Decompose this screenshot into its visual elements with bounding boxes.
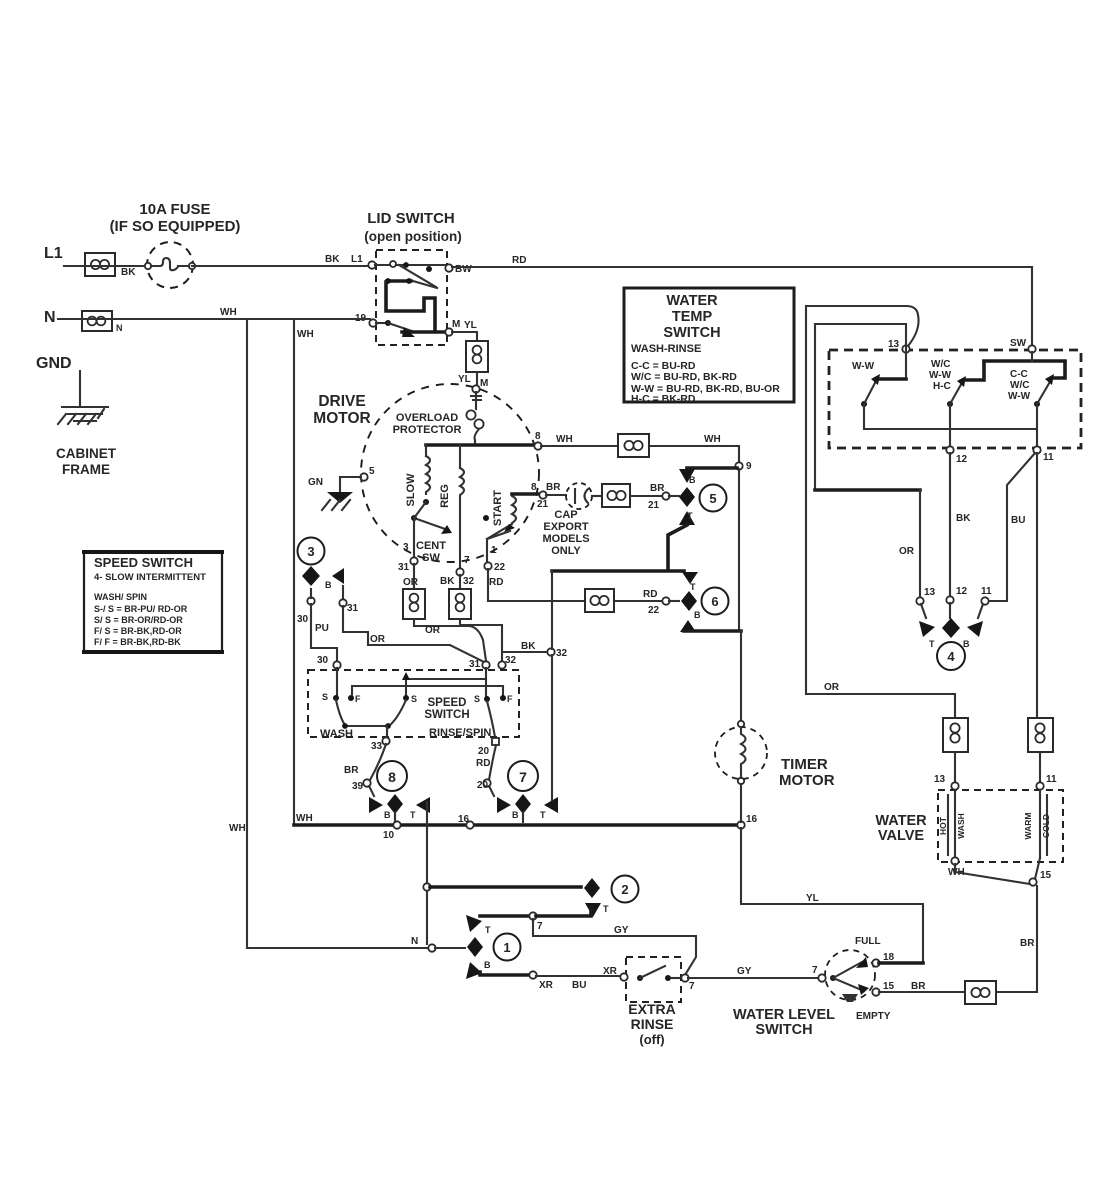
drive motor body (dashed circle) — [361, 384, 539, 562]
svg-text:BK: BK — [121, 267, 136, 278]
svg-text:BK: BK — [440, 576, 455, 587]
node 9 — [735, 461, 752, 472]
svg-text:(off): (off) — [639, 1032, 664, 1047]
node 13b — [916, 587, 935, 605]
node N — [428, 944, 465, 951]
svg-text:8: 8 — [531, 482, 537, 493]
svg-text:W-W: W-W — [1008, 391, 1031, 402]
svg-text:H-C = BK-RD: H-C = BK-RD — [631, 393, 696, 405]
svg-text:11: 11 — [1043, 452, 1054, 463]
wire T of 8 down to diamond 1 area — [426, 802, 428, 944]
start switch arm — [487, 524, 515, 563]
svg-text:16: 16 — [746, 814, 758, 825]
svg-text:T: T — [603, 904, 609, 914]
svg-text:VALVE: VALVE — [878, 828, 925, 844]
wire (bold) node to flag 2 — [430, 885, 581, 889]
lid switch S2 (dashed enclosure) — [376, 250, 447, 345]
node 16 on bus — [458, 814, 474, 829]
svg-text:N: N — [411, 936, 418, 947]
node 33 — [371, 737, 390, 752]
svg-text:PU: PU — [315, 623, 329, 634]
contact flag 2 — [584, 878, 609, 917]
node 12b — [946, 586, 967, 604]
node 31 (motor) — [398, 557, 419, 588]
wire contact6 B to right drop (bold) — [684, 629, 741, 633]
svg-text:GY: GY — [614, 925, 629, 936]
svg-text:32: 32 — [556, 648, 568, 659]
slow winding — [405, 445, 430, 507]
svg-text:T: T — [929, 639, 935, 649]
svg-text:BU: BU — [1011, 515, 1025, 526]
svg-text:7: 7 — [537, 921, 543, 932]
svg-text:(open position): (open position) — [364, 229, 461, 244]
svg-text:WASH-RINSE: WASH-RINSE — [631, 343, 701, 355]
svg-text:15: 15 — [883, 981, 895, 992]
node 13 (top edge) — [888, 339, 910, 353]
speed switch rinse arm — [487, 701, 495, 737]
wire BK branch to vertical 552 — [502, 641, 568, 659]
svg-text:GN: GN — [308, 477, 323, 488]
svg-text:31: 31 — [469, 659, 481, 670]
label L1 — [44, 245, 63, 262]
wire WH bottom bus — [294, 813, 741, 825]
svg-text:B: B — [384, 810, 391, 820]
wire BK 12 down — [950, 453, 971, 597]
svg-text:WATER: WATER — [666, 293, 718, 309]
svg-text:LID SWITCH: LID SWITCH — [367, 210, 455, 227]
svg-text:L1: L1 — [44, 245, 63, 262]
motor bus (bold) — [426, 443, 536, 447]
svg-text:FULL: FULL — [855, 936, 881, 947]
circle terminal 3 — [298, 538, 325, 565]
speed switch contacts S3 F3 — [474, 694, 513, 704]
svg-text:OR: OR — [899, 546, 915, 557]
svg-text:TIMER: TIMER — [781, 756, 828, 773]
svg-text:9: 9 — [746, 461, 752, 472]
svg-text:BK: BK — [325, 254, 340, 265]
node SW (top edge) — [1010, 338, 1036, 353]
svg-text:W/C: W/C — [931, 359, 950, 370]
svg-text:SPEED SWITCH: SPEED SWITCH — [94, 555, 193, 570]
T-line of contact 6 (bold) — [552, 571, 698, 592]
svg-text:FRAME: FRAME — [62, 462, 110, 477]
svg-text:4- SLOW INTERMITTENT: 4- SLOW INTERMITTENT — [94, 572, 206, 583]
water valve caption — [875, 813, 927, 844]
svg-text:SPEED: SPEED — [428, 697, 467, 709]
svg-text:SW: SW — [422, 552, 440, 564]
svg-text:EMPTY: EMPTY — [856, 1011, 891, 1022]
svg-text:N: N — [116, 323, 123, 333]
svg-text:B: B — [963, 639, 970, 649]
svg-text:8: 8 — [535, 431, 541, 442]
temp switch common bar (bold) — [984, 352, 1065, 361]
wire RD down to water temp switch SW — [1031, 267, 1033, 346]
wire L1 to fuse — [64, 266, 148, 278]
circle terminal 4 — [937, 642, 965, 670]
svg-text:WARM: WARM — [1023, 813, 1033, 840]
svg-text:W-W: W-W — [852, 361, 875, 372]
cabinet frame caption — [56, 446, 117, 477]
wire BK fuse to lid switch — [192, 254, 369, 266]
cent switch — [403, 502, 452, 564]
wire contact5 T down to T-line (bold) — [668, 525, 687, 569]
node 10 on bus — [383, 821, 401, 841]
speed switch contacts S1 F1 — [322, 668, 361, 704]
ground chassis symbol — [58, 407, 108, 424]
svg-text:S: S — [322, 692, 328, 702]
svg-text:T: T — [540, 810, 546, 820]
svg-text:12: 12 — [956, 454, 968, 465]
speed switch rail S (y679) — [402, 668, 486, 696]
svg-text:S: S — [411, 694, 417, 704]
svg-text:WASH: WASH — [320, 728, 353, 740]
temp switch W-W contact — [852, 361, 906, 407]
overload protector — [393, 392, 484, 444]
svg-text:RD: RD — [476, 758, 490, 769]
svg-text:32: 32 — [505, 655, 517, 666]
svg-text:13: 13 — [888, 339, 900, 350]
node 12 (bottom edge) — [946, 446, 967, 465]
svg-text:30: 30 — [317, 655, 329, 666]
wire BR start to capacitor — [512, 482, 566, 510]
svg-text:H-C: H-C — [933, 381, 951, 392]
label GND — [36, 355, 72, 372]
svg-text:1: 1 — [491, 545, 497, 556]
svg-text:7: 7 — [812, 965, 818, 976]
svg-text:BU: BU — [572, 980, 586, 991]
svg-text:MODELS: MODELS — [542, 533, 589, 545]
water temp switch enclosure (dashed) — [829, 350, 1081, 448]
connector C-BK (motor 32) — [449, 575, 471, 619]
wire YL below bus to water level switch — [741, 828, 923, 961]
svg-text:RD: RD — [512, 255, 526, 266]
svg-text:2: 2 — [621, 882, 628, 897]
wire right main drop (node9 to B-line of 6) — [738, 469, 740, 631]
contact flag 8 — [369, 794, 430, 822]
wire full contact to YL (bold) — [879, 961, 923, 965]
speed switch rail F (y686) — [352, 686, 503, 695]
wire vertical 552 (T of 6 down to T of 7) — [551, 571, 553, 796]
svg-text:31: 31 — [347, 603, 359, 614]
svg-text:CABINET: CABINET — [56, 446, 117, 461]
lid switch pole 2 — [355, 313, 477, 337]
svg-text:W-W: W-W — [929, 370, 952, 381]
node on drop for flag 2 — [423, 883, 430, 890]
svg-text:ONLY: ONLY — [551, 545, 581, 557]
svg-text:COLD: COLD — [1041, 814, 1051, 838]
lid switch node BW — [445, 264, 472, 275]
svg-text:HOT: HOT — [938, 816, 948, 835]
timer motor — [715, 631, 767, 822]
svg-text:1: 1 — [503, 940, 510, 955]
svg-text:11: 11 — [1046, 774, 1057, 785]
wire BK from connector to speed switch 32 — [460, 619, 502, 661]
svg-text:WH: WH — [297, 329, 314, 340]
node 31 (speed switch) — [469, 659, 490, 670]
wire RD lid switch to right edge — [452, 255, 1032, 267]
svg-text:7: 7 — [519, 769, 527, 785]
svg-text:S/ S = BR-OR/RD-OR: S/ S = BR-OR/RD-OR — [94, 615, 183, 625]
wire WH motor to corner — [541, 434, 739, 463]
connector V1 (hot valve) — [943, 718, 968, 752]
svg-text:31: 31 — [398, 562, 410, 573]
wire W-W throw inner loop to flag4 T — [815, 324, 920, 598]
wire RD node20 to contact 7 — [477, 745, 496, 796]
wire OR from connector to speed switch 31 — [414, 619, 486, 661]
speed switch wash arms — [336, 700, 406, 738]
svg-text:SWITCH: SWITCH — [424, 709, 469, 721]
svg-text:13: 13 — [924, 587, 936, 598]
svg-text:YL: YL — [458, 374, 471, 385]
contact flag 3 — [302, 566, 344, 590]
timer motor caption — [779, 756, 835, 789]
temp switch C-C contact — [1008, 362, 1065, 407]
lid switch pole 1 — [368, 261, 446, 287]
wire 11 straight down to cold valve — [1036, 453, 1038, 718]
svg-text:WASH: WASH — [956, 813, 966, 839]
svg-text:OR: OR — [370, 634, 386, 645]
water level switch body — [812, 936, 895, 1022]
wire node9 to contact5 B (bold) — [687, 466, 737, 470]
svg-text:OR: OR — [425, 625, 441, 636]
svg-text:22: 22 — [494, 562, 506, 573]
speed switch enclosure (dashed) — [308, 670, 519, 737]
svg-text:PROTECTOR: PROTECTOR — [393, 424, 462, 436]
svg-text:RINSE: RINSE — [631, 1016, 674, 1032]
connector P4 on WH — [618, 434, 649, 457]
svg-text:MOTOR: MOTOR — [779, 772, 835, 789]
svg-text:XR: XR — [603, 966, 618, 977]
wire B-line of 1 (bold) — [480, 971, 621, 991]
svg-text:WH: WH — [556, 434, 573, 445]
svg-text:EXPORT: EXPORT — [543, 521, 589, 533]
node 11b — [981, 586, 992, 605]
wire BR to contact 5 — [630, 483, 679, 511]
wire to valve nodes — [934, 752, 1057, 790]
connector P2 on line N — [82, 311, 123, 333]
drive motor caption — [313, 393, 370, 427]
svg-text:B: B — [694, 610, 701, 620]
svg-text:CAP: CAP — [554, 509, 577, 521]
svg-text:F: F — [355, 694, 361, 704]
svg-text:21: 21 — [648, 500, 660, 511]
capacitor C1 (export) — [566, 483, 592, 509]
node 31 (flag) wire — [339, 586, 486, 663]
contact flag 4 — [919, 603, 983, 649]
svg-text:WATER: WATER — [875, 813, 927, 829]
svg-text:MOTOR: MOTOR — [313, 410, 370, 427]
svg-text:32: 32 — [463, 576, 475, 587]
water valve enclosure (dashed) — [938, 790, 1063, 862]
temp switch W-C contact — [929, 359, 984, 407]
motor node M — [471, 385, 481, 400]
svg-text:GY: GY — [737, 966, 752, 977]
connector P1 on line L1 — [85, 253, 115, 276]
wire BR up right side — [996, 886, 1037, 992]
svg-text:10A FUSE: 10A FUSE — [139, 201, 210, 218]
svg-text:WH: WH — [229, 823, 246, 834]
node 22 (motor) — [484, 562, 505, 588]
svg-text:SWITCH: SWITCH — [663, 325, 720, 341]
connector P5 on BR — [592, 484, 630, 507]
fuse F1 10A — [145, 242, 195, 288]
reg winding — [439, 445, 464, 570]
node 30 (lower) — [317, 655, 341, 669]
wire WH left drop to N return — [229, 319, 430, 948]
svg-text:F/ F = BR-BK,RD-BK: F/ F = BR-BK,RD-BK — [94, 637, 181, 647]
svg-text:GND: GND — [36, 355, 72, 372]
contact flag 6 — [680, 591, 701, 632]
svg-text:15: 15 — [1040, 870, 1052, 881]
svg-text:B: B — [512, 810, 519, 820]
svg-text:B: B — [689, 475, 696, 485]
connector P7 on BR — [965, 981, 996, 1004]
svg-text:W/C: W/C — [1010, 380, 1029, 391]
extra rinse caption — [628, 1001, 675, 1047]
wire T-line of 1 to T of 2 (bold) — [480, 908, 591, 932]
svg-text:BR: BR — [650, 483, 665, 494]
svg-text:WH: WH — [704, 434, 721, 445]
svg-text:4: 4 — [947, 649, 955, 664]
node 7/32 (motor) — [440, 555, 475, 587]
svg-text:T: T — [410, 810, 416, 820]
motor node 5 and ground — [308, 466, 375, 510]
circle terminal 1 — [494, 934, 521, 961]
svg-text:M: M — [452, 319, 460, 330]
fuse caption — [110, 201, 241, 235]
svg-text:T: T — [687, 511, 693, 521]
svg-text:BR: BR — [1020, 938, 1035, 949]
svg-text:BR: BR — [344, 765, 359, 776]
wire PU to speed switch — [311, 604, 337, 662]
svg-text:EXTRA: EXTRA — [628, 1001, 675, 1017]
svg-text:W/C = BU-RD, BK-RD: W/C = BU-RD, BK-RD — [631, 371, 737, 383]
svg-text:M: M — [480, 378, 488, 389]
svg-text:7: 7 — [689, 981, 695, 992]
label N — [44, 309, 56, 326]
svg-text:13: 13 — [934, 774, 946, 785]
connector P6 on RD — [585, 589, 614, 612]
svg-text:T: T — [485, 925, 491, 935]
svg-text:S-/ S = BR-PU/ RD-OR: S-/ S = BR-PU/ RD-OR — [94, 604, 188, 614]
svg-text:30: 30 — [297, 614, 309, 625]
svg-text:YL: YL — [806, 893, 819, 904]
svg-text:6: 6 — [711, 594, 718, 609]
svg-text:BK: BK — [521, 641, 536, 652]
node 20 (square) — [476, 738, 499, 769]
wire WH from N to lid switch node 19 — [58, 307, 370, 319]
svg-text:RINSE/SPIN: RINSE/SPIN — [429, 727, 491, 739]
svg-text:11: 11 — [981, 586, 992, 597]
wire M-YL from lid switch to motor connector — [452, 332, 477, 341]
svg-text:SLOW: SLOW — [405, 473, 417, 507]
svg-text:OR: OR — [403, 577, 419, 588]
svg-text:20: 20 — [478, 746, 490, 757]
svg-text:YL: YL — [464, 320, 477, 331]
node 11 (bottom edge) — [1033, 446, 1054, 463]
cold solenoid — [1023, 790, 1051, 858]
svg-text:REG: REG — [439, 484, 451, 508]
wire node13 outer loop to valve hot — [806, 306, 955, 718]
svg-text:BR: BR — [911, 981, 926, 992]
svg-text:CENT: CENT — [416, 540, 446, 552]
svg-text:OR: OR — [824, 682, 840, 693]
wire GY from node 7 to extra rinse — [533, 919, 696, 975]
wire BR node33 to contact 8 — [344, 744, 386, 796]
node 16b on bus at timer — [737, 814, 757, 829]
svg-text:N: N — [44, 309, 56, 326]
wire connector to motor M node — [476, 372, 478, 385]
svg-text:WH: WH — [220, 307, 237, 318]
lid switch mechanical link (bold) — [385, 278, 437, 331]
circle terminal 6 — [702, 588, 729, 615]
wire WH valve bottoms — [948, 857, 1052, 885]
node 32 (speed switch) — [498, 655, 516, 669]
wire GND drop — [79, 371, 81, 407]
wire BU 11 down — [988, 453, 1035, 601]
wire WH big-box left edge — [294, 319, 314, 825]
svg-text:DRIVE: DRIVE — [318, 393, 365, 410]
circle terminal 5 — [700, 485, 727, 512]
contact flag 5 — [679, 469, 696, 525]
hot solenoid — [938, 790, 966, 858]
svg-text:TEMP: TEMP — [672, 309, 713, 325]
contact flag 1 — [466, 915, 491, 979]
svg-text:RD: RD — [643, 589, 657, 600]
speed switch legend box — [82, 552, 224, 652]
speed switch contacts S2 — [403, 694, 417, 704]
svg-text:B: B — [325, 580, 332, 590]
speed switch caption — [320, 697, 491, 740]
svg-text:RD: RD — [489, 577, 503, 588]
svg-text:WATER LEVEL: WATER LEVEL — [733, 1007, 835, 1023]
svg-text:3: 3 — [403, 542, 409, 553]
svg-text:F/ S = BR-BK,RD-OR: F/ S = BR-BK,RD-OR — [94, 626, 182, 636]
svg-text:5: 5 — [369, 466, 375, 477]
svg-text:10: 10 — [383, 830, 395, 841]
svg-text:16: 16 — [458, 814, 470, 825]
connector C-OR (motor 31) — [403, 564, 425, 619]
svg-text:5: 5 — [709, 491, 716, 506]
circle terminal 2 — [612, 876, 639, 903]
extra rinse switch (dashed) — [603, 957, 695, 1002]
wire RD motor 22 to contact 6 — [488, 569, 679, 616]
temp switch bottom rail — [864, 406, 1037, 448]
svg-text:21: 21 — [537, 499, 549, 510]
svg-text:BW: BW — [455, 264, 472, 275]
svg-text:7: 7 — [464, 555, 470, 566]
svg-text:S: S — [474, 694, 480, 704]
svg-text:3: 3 — [307, 544, 314, 559]
svg-text:WASH/ SPIN: WASH/ SPIN — [94, 592, 147, 602]
svg-text:OVERLOAD: OVERLOAD — [396, 412, 458, 424]
svg-text:XR: XR — [539, 980, 554, 991]
contact flag 7 — [497, 794, 558, 822]
wire BR empty to connector — [879, 981, 965, 992]
cap caption — [542, 509, 589, 557]
svg-text:12: 12 — [956, 586, 968, 597]
svg-text:SW: SW — [1010, 338, 1027, 349]
svg-text:39: 39 — [352, 781, 364, 792]
water level caption — [733, 1007, 835, 1038]
lid switch caption — [364, 210, 461, 244]
svg-text:WH: WH — [296, 813, 313, 824]
svg-text:20: 20 — [477, 780, 489, 791]
svg-text:22: 22 — [648, 605, 660, 616]
svg-text:START: START — [492, 490, 504, 526]
start winding — [483, 490, 516, 539]
svg-text:T: T — [690, 582, 696, 592]
